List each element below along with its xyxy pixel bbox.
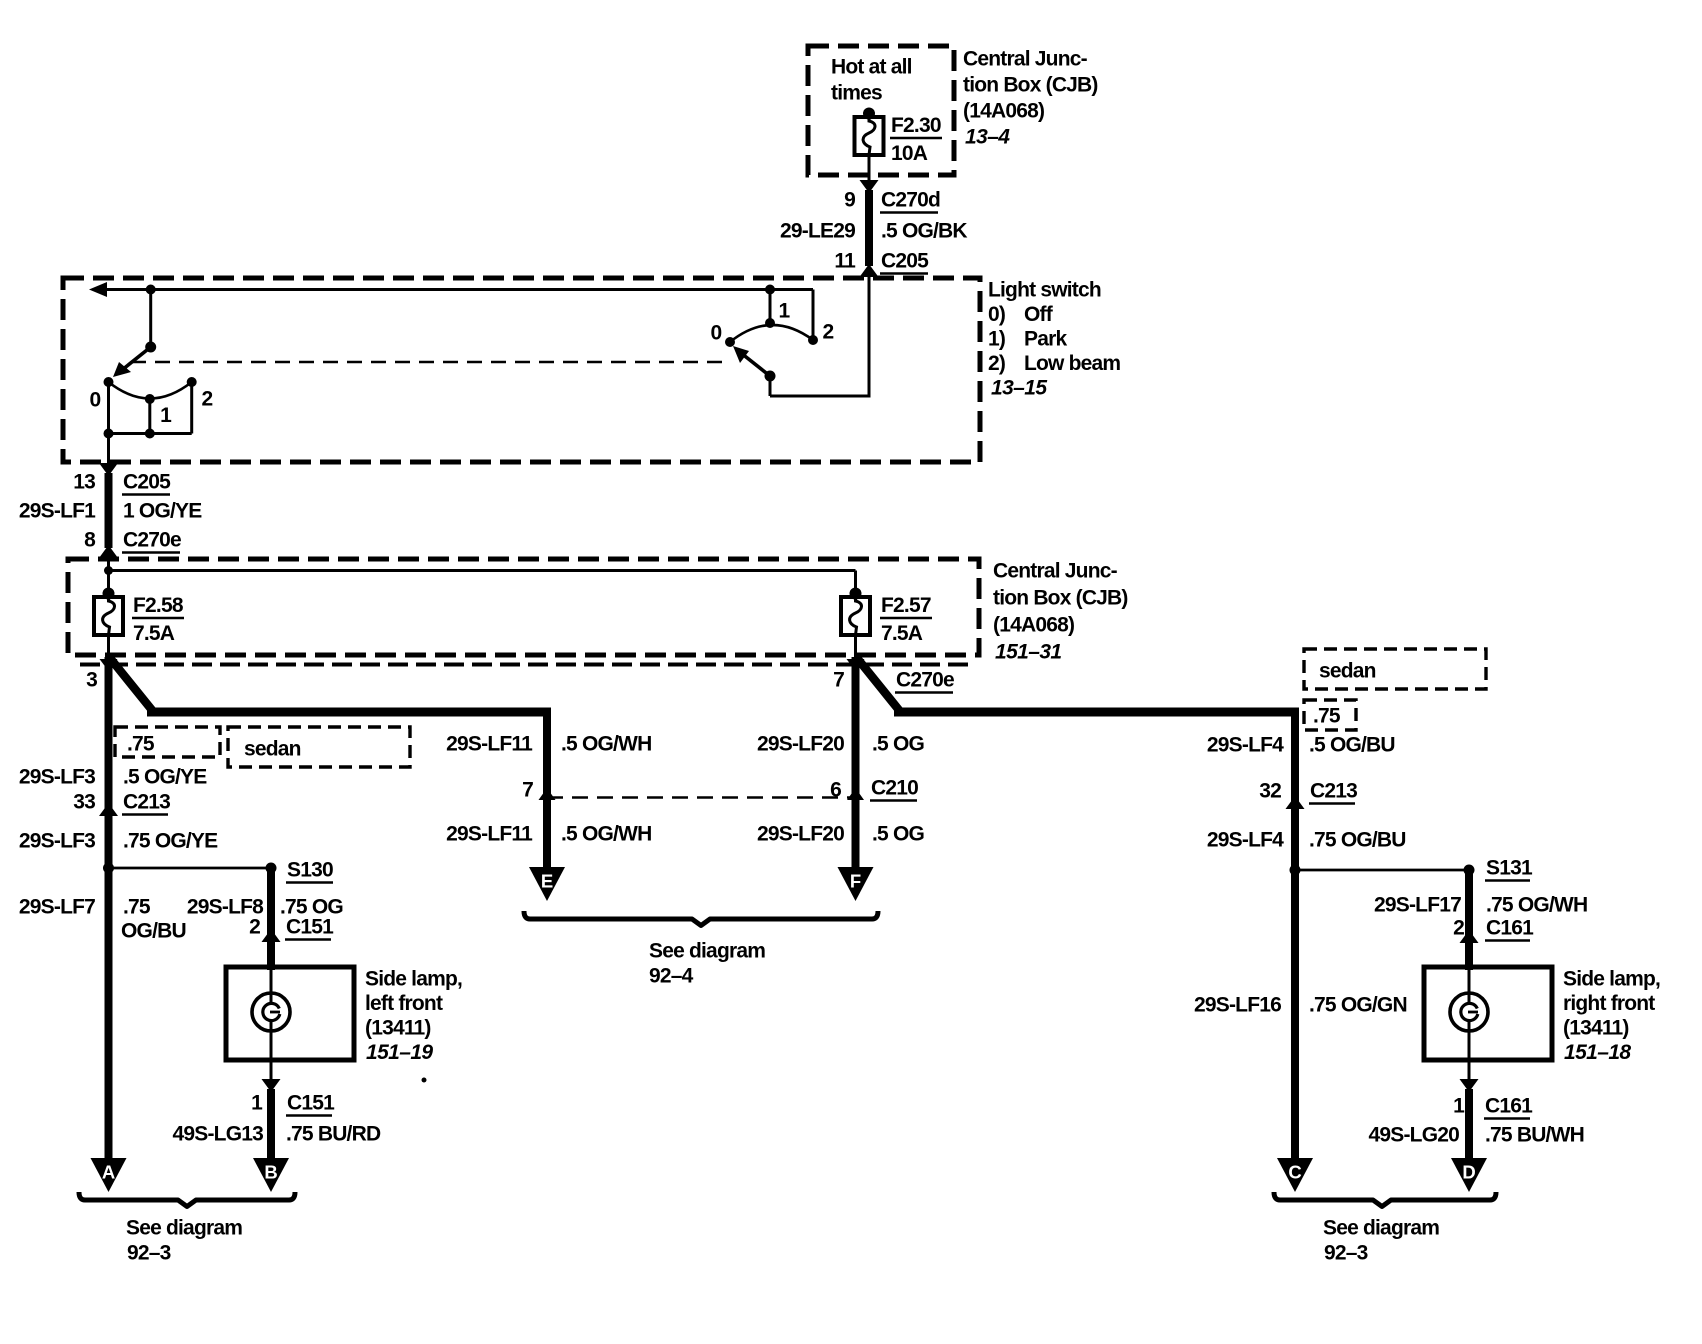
svg-text:1: 1 [160,404,172,427]
connector C210 pin 6 arrow [830,777,918,802]
wire: drop to right switch pos 2 [812,290,815,340]
light switch dashed box [63,278,980,462]
svg-text:Side lamp,: Side lamp, [1563,968,1660,991]
node S131 splice [1290,857,1533,881]
arrow B [253,1158,289,1192]
left switch contacts 0 1 2 [90,377,213,427]
label: Hot at all times [831,56,912,105]
svg-text:A: A [102,1162,115,1183]
svg-text:.5 OG/YE: .5 OG/YE [123,766,207,789]
svg-text:29-LE29: 29-LE29 [780,220,855,243]
svg-text:.5 OG: .5 OG [872,823,924,846]
wire 29S-LF8 .75 OG [187,868,343,970]
svg-text:29S-LF4: 29S-LF4 [1207,734,1284,757]
svg-text:Park: Park [1024,328,1067,351]
lamp: side lamp right front (13411) [1424,967,1552,1060]
svg-text:32: 32 [1259,780,1281,803]
svg-text:29S-LF11: 29S-LF11 [446,823,533,846]
svg-text:See diagram: See diagram [1323,1217,1439,1240]
svg-text:C270e: C270e [123,529,181,552]
dashed option box sedan [228,727,410,767]
arrow E [529,867,565,901]
left switch travel arc [109,382,192,399]
svg-text:C205: C205 [881,250,929,273]
connector C151 pin 1 arrow [251,1079,335,1116]
wire: top feed inside light switch with left arrow [89,282,813,297]
svg-text:Central Junc-: Central Junc- [993,560,1118,583]
dashed option box .75 (right) [1304,700,1356,730]
svg-text:7: 7 [833,669,844,692]
svg-text:7: 7 [522,779,533,802]
wire: internal bus F2.58 to F2.57 [109,571,856,593]
wire label 29S-LF4 .5 OG/BU [1207,734,1395,757]
wire: left switch output through box edge [107,434,110,468]
svg-text:C151: C151 [287,1092,335,1115]
svg-text:6: 6 [830,779,841,802]
arrow C [1277,1158,1313,1192]
arrow D [1451,1158,1487,1192]
svg-text:.75: .75 [1313,705,1341,728]
svg-text:(13411): (13411) [365,1017,431,1040]
label: Side lamp, left front (13411) 151-19 [365,968,462,1065]
svg-text:F2.58: F2.58 [133,594,184,617]
svg-text:C270e: C270e [896,669,954,692]
connector C210 pin 7 arrow [522,779,555,802]
svg-text:C161: C161 [1486,917,1534,940]
svg-text:Side lamp,: Side lamp, [365,968,462,991]
svg-text:C210: C210 [871,777,918,800]
svg-text:.75 BU/WH: .75 BU/WH [1485,1124,1584,1147]
svg-text:29S-LF11: 29S-LF11 [446,733,533,756]
dashed option box .75 [115,727,220,757]
svg-text:S130: S130 [287,859,333,882]
svg-text:C270d: C270d [881,189,940,212]
svg-text:OG/BU: OG/BU [121,920,186,943]
wire label 29S-LF16 .75 OG/GN [1194,994,1407,1017]
svg-text:F2.57: F2.57 [881,594,931,617]
svg-text:29S-LF20: 29S-LF20 [757,823,844,846]
svg-text:.75: .75 [127,733,155,756]
Central Junction Box (CJB) second dashed box [68,559,979,655]
wire label 29S-LF20 .5 OG (upper) [757,733,924,756]
wire 29S-LF11 drop to E [543,708,551,871]
svg-text:7.5A: 7.5A [881,622,923,645]
svg-text:C151: C151 [286,916,334,939]
wire below right lamp [1468,1060,1471,1079]
svg-text:F: F [850,871,861,892]
svg-text:Hot at all: Hot at all [831,56,912,79]
connector C210 dashed line [547,796,856,799]
svg-text:1: 1 [779,300,791,323]
node: junction top wire / left switch [146,285,156,295]
connector C270d pin 9 arrow [844,180,940,213]
wire: fuse F2.30 to box edge [868,155,871,181]
svg-text:right front: right front [1563,992,1655,1015]
svg-text:.75 OG/YE: .75 OG/YE [123,830,218,853]
svg-text:C205: C205 [123,471,171,494]
svg-text:9: 9 [844,189,855,212]
svg-text:29S-LF17: 29S-LF17 [1374,894,1461,917]
wire label 29S-LF11 .5 OG/WH (upper) [446,733,651,756]
svg-text:times: times [831,82,882,105]
svg-text:1: 1 [1453,1095,1465,1118]
svg-text:49S-LG13: 49S-LG13 [173,1123,264,1146]
svg-text:(14A068): (14A068) [963,100,1044,123]
svg-text:29S-LF7: 29S-LF7 [19,896,95,919]
svg-text:29S-LF3: 29S-LF3 [19,830,95,853]
fuse F2.58 7.5A [94,588,184,646]
node S130 splice [103,859,333,883]
svg-text:C: C [1288,1162,1301,1183]
svg-text:49S-LG20: 49S-LG20 [1369,1124,1460,1147]
wire 29S-LF20 drop to F [852,657,860,870]
svg-text:Off: Off [1024,303,1054,326]
svg-text:2): 2) [988,352,1005,375]
connector C270e pin 3 arrow [86,659,117,692]
connector C213 pin 32 arrow [1259,780,1357,810]
svg-text:.75 OG/GN: .75 OG/GN [1309,994,1407,1017]
label: Central Junction Box (CJB) (14A068) 151-31 [993,560,1128,664]
wire below F2.58 [107,635,110,658]
svg-text:2: 2 [249,916,260,939]
svg-text:sedan: sedan [1319,660,1376,683]
wire 29S-LF17 .75 OG/WH [1374,870,1587,970]
svg-text:Light switch: Light switch [988,279,1101,302]
svg-text:29S-LF4: 29S-LF4 [1207,829,1284,852]
svg-text:13–4: 13–4 [965,126,1010,149]
wire below left lamp [270,1060,273,1079]
svg-text:.5 OG/BK: .5 OG/BK [881,220,967,243]
arrow F [838,867,874,901]
right switch contacts 0 1 2 [711,300,834,348]
dashed option box sedan (right) [1304,649,1486,689]
svg-text:151–18: 151–18 [1564,1041,1631,1064]
svg-text:Central Junc-: Central Junc- [963,48,1088,71]
svg-text:C161: C161 [1485,1095,1533,1118]
wire branch diagonal to E bus [110,658,152,712]
wire 29-LE29 .5 OG/BK [780,190,967,266]
svg-text:S131: S131 [1486,857,1533,880]
connector C270e pin 7 arrow [833,659,954,693]
wire label 29S-LF4 .75 OG/BU [1207,829,1406,852]
svg-text:.5 OG/WH: .5 OG/WH [561,733,651,756]
wire 29S-LF3 vertical to A [105,657,113,1160]
svg-text:151–31: 151–31 [995,641,1061,664]
svg-text:See diagram: See diagram [126,1217,242,1240]
svg-text:29S-LF3: 29S-LF3 [19,766,95,789]
svg-text:left front: left front [365,992,443,1015]
wire label 29S-LF7 .75 OG/BU [19,896,186,943]
label: Light switch legend [988,279,1120,400]
svg-text:29S-LF1: 29S-LF1 [19,500,96,523]
wire 29S-LF4 drop to C [1291,708,1299,1161]
connector C161 pin 2 arrow [1453,917,1534,944]
lamp: side lamp left front (13411) [226,967,354,1060]
svg-text:0): 0) [988,303,1005,326]
connector C205 pin 11 arrow [834,250,929,278]
svg-text:D: D [1462,1162,1475,1183]
svg-text:tion Box (CJB): tion Box (CJB) [993,587,1128,610]
wire below F2.57 [854,635,857,658]
connector C205 pin 13 arrow [73,463,171,495]
svg-text:.75 OG/BU: .75 OG/BU [1309,829,1406,852]
svg-text:1 OG/YE: 1 OG/YE [123,500,202,523]
bracket C-D [1274,1192,1496,1207]
svg-text:0: 0 [711,322,722,345]
svg-text:Low beam: Low beam [1024,352,1120,375]
wire 49S-LG20 .75 BU/WH [1369,1089,1584,1160]
svg-text:.75: .75 [123,896,151,919]
arrow A [91,1158,127,1192]
connector C270e dashed line below CJB [80,663,976,667]
wire label 29S-LF3 .5 OG/YE [19,766,207,789]
svg-text:13: 13 [73,471,95,494]
node: junction top wire / right switch pos 1 [765,285,775,295]
fuse F2.57 7.5A [841,588,932,646]
svg-text:29S-LF16: 29S-LF16 [1194,994,1281,1017]
svg-text:13–15: 13–15 [991,377,1047,400]
svg-text:B: B [264,1162,277,1183]
svg-text:.5 OG: .5 OG [872,733,924,756]
svg-text:151–19: 151–19 [366,1041,433,1064]
bracket A-B [79,1192,295,1207]
svg-text:See diagram: See diagram [649,940,765,963]
wire into light switch [868,276,871,396]
svg-text:2: 2 [1453,917,1464,940]
svg-text:1): 1) [988,328,1005,351]
svg-text:11: 11 [834,250,856,273]
wire: drop to right switch pos 1 [769,290,772,323]
svg-text:8: 8 [84,529,96,552]
wire: right wiper to C205 riser [770,376,871,396]
stray scan dot [422,1078,427,1083]
connector C213 pin 33 arrow [73,791,170,817]
svg-text:.75 BU/RD: .75 BU/RD [286,1123,381,1146]
wire 49S-LG13 .75 BU/RD [173,1089,381,1160]
wire into CJB2 [107,557,110,597]
wire bus to C drop [894,708,1295,717]
svg-text:10A: 10A [891,142,928,165]
connector C270e pin 8 arrow [84,529,181,559]
node: bus junction [104,566,113,575]
svg-text:(13411): (13411) [1563,1017,1629,1040]
svg-text:7.5A: 7.5A [133,622,175,645]
wire label 29S-LF20 .5 OG (lower) [757,823,924,846]
node: common bar junctions [104,429,155,439]
Central Junction Box (CJB) top dashed box [808,46,954,175]
svg-text:sedan: sedan [244,738,301,761]
svg-text:92–3: 92–3 [127,1242,171,1265]
svg-text:0: 0 [90,389,101,412]
wire bus to E drop [147,708,547,717]
fuse F2.30 10A [855,108,943,166]
wire 29S-LF1 1 OG/YE [19,473,202,548]
svg-text:C213: C213 [1310,780,1357,803]
wire: drop from top wire to left wiper pivot [149,290,152,348]
label: Side lamp, right front (13411) 151-18 [1563,968,1660,1065]
svg-text:33: 33 [73,791,95,814]
right switch travel arc [730,325,813,342]
wire label 29S-LF3 .75 OG/YE [19,830,218,853]
svg-text:.5 OG/WH: .5 OG/WH [561,823,651,846]
bracket E-F [524,911,878,926]
svg-text:1: 1 [251,1092,263,1115]
svg-text:92–3: 92–3 [1324,1242,1368,1265]
svg-text:2: 2 [202,388,213,411]
svg-text:(14A068): (14A068) [993,614,1074,637]
svg-text:92–4: 92–4 [649,965,694,988]
wire branch diagonal to right bus [857,658,899,712]
label: See diagram 92-4 [649,940,765,988]
svg-text:.75 OG/WH: .75 OG/WH [1486,894,1587,917]
left switch wiper blade [113,342,156,378]
connector C161 pin 1 arrow [1453,1079,1533,1119]
svg-text:3: 3 [86,669,97,692]
wires: left switch contacts to common bar [109,382,192,434]
svg-text:tion Box (CJB): tion Box (CJB) [963,74,1098,97]
wire label 29S-LF11 .5 OG/WH (lower) [446,823,651,846]
svg-text:C213: C213 [123,791,170,814]
label: See diagram 92-3 (left) [126,1217,242,1265]
label: Central Junction Box (CJB) (14A068) 13-4 [963,48,1098,149]
mechanical linkage dashed line [131,361,729,364]
label: See diagram 92-3 (right) [1323,1217,1439,1265]
svg-text:2: 2 [823,321,834,344]
svg-text:E: E [541,871,553,892]
right switch wiper blade [733,346,776,382]
svg-text:.5 OG/BU: .5 OG/BU [1309,734,1395,757]
svg-text:F2.30: F2.30 [891,114,941,137]
connector C151 pin 2 arrow [249,916,334,943]
svg-text:29S-LF20: 29S-LF20 [757,733,844,756]
